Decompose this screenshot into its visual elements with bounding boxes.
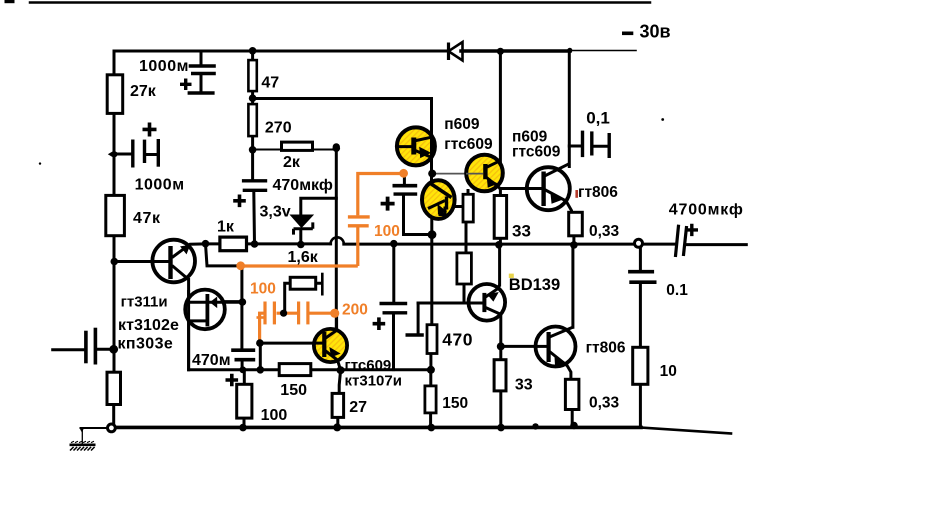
diode top rail (449, 42, 463, 61)
capacitor 4700mkf (series, tilted plates) (675, 224, 698, 257)
wire bottom mid horizontal (FET source to cap2 corner to 470 junction) (189, 368, 431, 371)
wire bottom rail (115, 426, 641, 430)
resistor input lower (unlabeled) (107, 372, 121, 404)
wire 27 resistor top lead (339, 370, 340, 393)
wire gt806-1 emitter lead into 0,33a (566, 201, 572, 212)
capacitor input (2 plates) (86, 328, 96, 365)
speck left (39, 162, 41, 164)
node 33a / BD139 collector / wireA (495, 241, 503, 249)
capacitor 470m (polarized) (226, 350, 256, 386)
wire A output after cap to right end (688, 243, 747, 246)
node Q3 base wire / bottom wire (257, 366, 265, 374)
wire bottom rail thin left end (81, 427, 109, 429)
resistor 270 (248, 104, 256, 136)
transistor Q3 gts609/kt3107i (yellow) (313, 329, 347, 362)
resistor 0,33 (upper) (569, 212, 583, 236)
wire between 47 and 270 (251, 91, 254, 104)
svg-text:470: 470 (442, 330, 473, 350)
wire Q4 collector from top rail (499, 51, 502, 161)
resistor 470m-column 100 (237, 384, 252, 418)
wire 2k right lead (312, 149, 336, 151)
resistor 1k (220, 237, 247, 251)
svg-text:200: 200 (342, 302, 368, 319)
wire cap1 bottom lead and wire B to circle2 bottom node (404, 196, 433, 235)
resistor 2k (282, 142, 313, 150)
svg-text:гтс609: гтс609 (345, 357, 392, 374)
top left corner dash (5, 0, 15, 3)
transistor Q4a p609/gts609 first (yellow) (396, 127, 435, 173)
svg-text:0.1: 0.1 (666, 282, 688, 299)
wire top rail thin right end (570, 50, 636, 52)
svg-text:BD139: BD139 (509, 276, 560, 294)
svg-text:100: 100 (261, 407, 288, 424)
wire 47-270 column top lead (251, 51, 254, 60)
resistor 47 (248, 60, 256, 91)
resistor 33 (lower) (494, 360, 506, 391)
wire BD139 base rail (418, 302, 482, 305)
wire top border line (30, 1, 650, 4)
svg-text:1,6к: 1,6к (288, 249, 319, 266)
node rail / 27 (333, 423, 341, 431)
svg-text:2к: 2к (283, 154, 301, 171)
node top rail / 47 (249, 47, 257, 55)
wire ground drop left (81, 430, 83, 444)
node FET drain / mid vertical (239, 298, 247, 306)
wire input lead (53, 348, 84, 351)
node top rail / Q4 collector (497, 48, 504, 55)
capacitor 0.1 (output branch) (628, 272, 656, 283)
wire FET drain horizontal (189, 300, 242, 303)
wire cap2 top lead from wire A (392, 244, 395, 302)
wire 0,33b bottom lead (571, 410, 574, 426)
wire 0,33a bottom lead (572, 236, 575, 245)
node 47/270 (249, 94, 257, 102)
svg-text:100: 100 (374, 223, 400, 240)
svg-text:0,33: 0,33 (589, 223, 620, 240)
wire circle2 bottom lead through wireA crossing down to BD139 base rail (430, 219, 433, 325)
node top rail / gt806-1 collector (small) (567, 48, 572, 53)
resistor 10 (633, 347, 648, 384)
wire FET source tap (189, 319, 207, 322)
svg-text:кт3107и: кт3107и (345, 373, 402, 390)
wire input cap to left column (98, 348, 114, 351)
wire 0,1 cap stub (569, 145, 580, 148)
resistor unlabeled upper (x466) (463, 194, 473, 222)
wire 470 bottom lead (429, 354, 432, 370)
node rail / 100 (239, 424, 247, 432)
orange node dot mid (200) (330, 309, 339, 318)
svg-text:150: 150 (442, 395, 468, 412)
wire gt806-1 collector vertical from top rail (568, 51, 571, 167)
wire cap2 bottom lead to bottom mid wire (392, 315, 395, 370)
capacitor bar plate facing main vertical (321, 273, 324, 296)
resistor 150 (left) (279, 364, 311, 376)
resistor 27k (107, 75, 123, 114)
node ring input bottom (108, 424, 116, 432)
svg-text:47к: 47к (133, 210, 161, 227)
node 1k left (202, 240, 210, 248)
svg-text:33: 33 (512, 222, 531, 241)
wire cap1 top lead from orange dot (403, 175, 406, 184)
svg-text:кт3102е: кт3102е (118, 317, 179, 334)
wire Q1 emitter / FET column vertical (187, 280, 190, 370)
capacitor 470mkf (polarized) (233, 181, 267, 207)
resistor series with bar-cap (mid) (285, 277, 322, 313)
wire 100 resistor bottom lead (243, 418, 246, 427)
capacitor 1000m top (polarized) (180, 51, 216, 93)
transistor Q1 gt311i (152, 240, 206, 283)
node rail small extra (532, 423, 538, 429)
resistor 27 (332, 393, 344, 417)
svg-text:п609: п609 (444, 116, 480, 133)
wire top rail right segment (461, 49, 570, 53)
svg-text:гт806: гт806 (578, 184, 618, 201)
svg-text:гтс609: гтс609 (444, 136, 493, 153)
svg-text:1к: 1к (217, 219, 235, 236)
svg-text:100: 100 (250, 281, 276, 298)
svg-text:270: 270 (265, 120, 292, 137)
svg-text:0,1: 0,1 (586, 109, 610, 128)
node 2k / main vertical (333, 144, 341, 152)
svg-text:33: 33 (515, 376, 533, 393)
wire output RC mid vertical (639, 284, 642, 347)
wire 33a top lead (499, 189, 502, 196)
svg-text:кп303е: кп303е (118, 336, 174, 353)
node Q3 emitter / 27 (337, 366, 345, 374)
svg-text:3,3v: 3,3v (260, 204, 291, 221)
wire 2k left lead (253, 149, 282, 151)
ground symbol left (70, 429, 96, 451)
svg-text:47: 47 (261, 75, 279, 92)
wire top rail 30v left segment (114, 50, 446, 53)
svg-text:470м: 470м (192, 352, 231, 369)
wire circle2 top lead (430, 174, 433, 182)
node BD139 base wire end triangle (465, 300, 471, 307)
speck right (661, 118, 664, 121)
wire zener top bend (301, 198, 337, 244)
wire A bias/output rail: Q1 collector to 1k (206, 242, 220, 245)
node rail / 0,33b (570, 422, 578, 430)
wire circle2 right stub (455, 205, 463, 208)
resistor unlabeled lower (x466) (457, 253, 472, 284)
node resistor-chain / orange mid caps (280, 310, 287, 317)
wire bottom rail sloped right end (641, 428, 731, 434)
resistor 33 (upper) (494, 196, 506, 239)
transistor Q5 p609/gts609 second (yellow) (466, 155, 503, 192)
svg-text:4700мкф: 4700мкф (669, 202, 744, 219)
wire Q3 emitter exit to junction (337, 313, 341, 370)
wire short vertical orange junction to bottom wire (259, 343, 262, 370)
orange node dot right (399, 169, 408, 178)
resistor 0,33 (lower) (565, 379, 579, 409)
wire 270 bottom to 470mkf cap (251, 136, 254, 179)
transistor Q6 BD139 (468, 284, 505, 321)
svg-text:150: 150 (280, 382, 307, 399)
transistor Q4b tilted (yellow) (422, 180, 455, 219)
node ring output branch (635, 239, 643, 247)
wire Q3 base from orange junction (260, 342, 323, 345)
zener diode 3,3v (291, 215, 313, 234)
svg-text:30в: 30в (640, 22, 671, 42)
node 470mkf / wireA (251, 240, 259, 248)
node left column / 1000m cap (diamond) (108, 150, 115, 159)
svg-text:1000м: 1000м (139, 58, 189, 75)
svg-text:0,33: 0,33 (589, 395, 620, 412)
node left column / input cap (109, 345, 118, 354)
node circle1 emitter / circle2 top / Q5 base wire (428, 170, 436, 178)
node 270/2k (249, 146, 257, 154)
node orange stub / Q3 base wire (256, 339, 264, 347)
wire A 1k to hop (247, 242, 331, 245)
wire A hop to 4700mkf cap (344, 243, 675, 246)
resistor 470 (427, 325, 437, 354)
wire left column lower resistor bottom lead (112, 405, 115, 424)
wire rail2 from 47/270 junction to right corner (253, 99, 432, 181)
svg-text:27: 27 (349, 399, 367, 416)
wire 33b leads (499, 346, 502, 427)
node 470 / 150 junction (427, 366, 435, 374)
svg-text:470мкф: 470мкф (273, 177, 333, 194)
wire BD139 collector lead (498, 244, 501, 285)
resistor 47k (106, 195, 125, 235)
wire resistor column x466 between boxes (464, 191, 468, 304)
wire black vertical from orange node down through FET drain junction to 470m cap (240, 266, 243, 348)
node zener / wireA (297, 241, 305, 249)
yellow speck near BD139 label (509, 274, 514, 278)
node left column / Q1 base (111, 258, 119, 266)
capacitor 0,1 (H style, top right) (583, 131, 610, 158)
svg-text:гтс609: гтс609 (512, 143, 561, 160)
wire Q4 base thin (432, 173, 483, 175)
capacitor 1000m left (polarized, H style) (114, 123, 158, 168)
svg-text:гт311и: гт311и (121, 293, 168, 310)
resistor 150 (right) (425, 386, 436, 413)
node BD139 emitter / 33b / gt806-2 base (497, 342, 505, 350)
node 0,33a / wireA (570, 241, 578, 249)
transistor Q8 gt806 second (534, 327, 576, 367)
wire 470m cap bottom lead (241, 361, 244, 369)
wire BD139 emitter to gt806-2 base (501, 345, 547, 348)
wire left column vertical (113, 51, 116, 372)
transistor Q2 FET kp303e (185, 290, 242, 370)
red speck near gt806 label (575, 190, 578, 198)
wire Q4 emitter to gt806-1 base (500, 187, 541, 190)
wire 33a bottom lead (499, 238, 502, 244)
orange node dot left (236, 261, 245, 270)
wire BD139 emitter vertical (499, 314, 502, 347)
orange net O1: dot-cap-dot (241, 174, 404, 267)
wire main mid vertical (2k junction down to Q3 top) (335, 147, 338, 330)
node 470m / bottom wire (239, 366, 246, 373)
capacitor cap2 (polarized, wireA to bottom wire) (373, 304, 408, 331)
wire stub with end bar (417, 303, 420, 334)
minus sign 30v (622, 32, 633, 36)
wire gt806-2 collector vertical (571, 245, 574, 327)
wire 27 resistor bottom lead (336, 418, 339, 428)
wire 150b top lead (429, 370, 432, 386)
wire output RC branch vertical top (639, 248, 642, 270)
wire Q1 collector junction down to orange node (206, 244, 239, 266)
svg-text:1000м: 1000м (135, 177, 185, 194)
wire 470mkf bottom lead (252, 192, 256, 244)
node cap2 / wireA (390, 240, 398, 248)
wire gt806-2 emitter lead (567, 366, 571, 380)
node rail / 150b (428, 424, 436, 432)
capacitor cap1 (polarized, orange node to wireB) (381, 186, 418, 211)
transistor Q7 gt806 first (526, 163, 570, 210)
wire 100 resistor top lead (243, 370, 246, 385)
svg-text:10: 10 (660, 363, 677, 380)
orange net O3: series caps mid (257, 302, 335, 344)
wire stub end bar (407, 333, 422, 336)
wire base Q1 from left column (115, 260, 170, 263)
node main vertical / Q4a base wire (333, 143, 340, 150)
node rail / 33b (497, 424, 505, 432)
svg-text:27к: 27к (130, 83, 157, 100)
svg-text:гт806: гт806 (586, 339, 626, 356)
wire A hop over main vertical (331, 237, 344, 244)
wire resistor10 bottom lead (639, 384, 642, 427)
wire 150b bottom lead (429, 413, 432, 428)
node wireB / circle2 bottom (428, 230, 437, 239)
